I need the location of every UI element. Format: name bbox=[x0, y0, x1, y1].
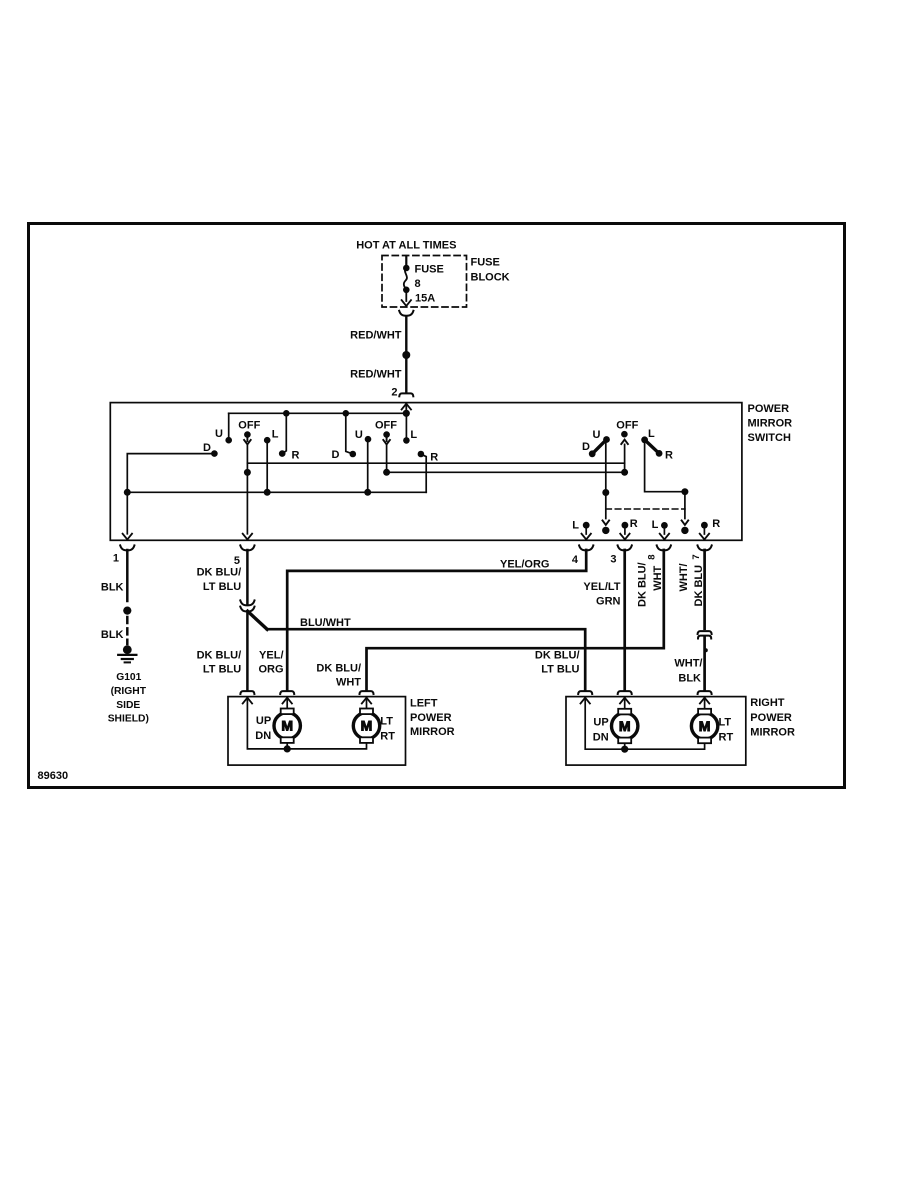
connector below fuse block bbox=[399, 311, 413, 316]
svg-text:LT BLU: LT BLU bbox=[541, 664, 579, 676]
svg-text:POWER: POWER bbox=[410, 712, 452, 724]
junction on bus for sw1 R bbox=[283, 410, 290, 417]
svg-text:LT: LT bbox=[380, 716, 393, 728]
svg-text:RIGHT: RIGHT bbox=[750, 697, 785, 709]
mechanical link dashed bbox=[606, 508, 685, 510]
svg-text:DK BLU/: DK BLU/ bbox=[637, 562, 649, 607]
svg-text:U: U bbox=[215, 428, 223, 440]
left power mirror box bbox=[228, 697, 406, 766]
wire BLU/WHT splice run to right mirror bbox=[248, 611, 268, 629]
pin 7 connector bbox=[698, 545, 712, 550]
wire DK BLU/LT BLU from pin 5 bbox=[246, 550, 249, 604]
svg-text:POWER: POWER bbox=[748, 403, 790, 415]
switch 1 OFF contact and wiper bbox=[244, 431, 251, 438]
pin 3 connector bbox=[618, 545, 632, 550]
svg-text:UP: UP bbox=[593, 717, 608, 729]
wire DK BLU/WHT pin 8 to left mirror bbox=[367, 550, 664, 690]
fuse output arrow bbox=[405, 290, 407, 301]
contact R pin 7 bbox=[701, 522, 708, 529]
svg-text:15A: 15A bbox=[415, 293, 435, 305]
wire sw2 wiper to sw3 bbox=[387, 471, 625, 473]
svg-text:WHT/: WHT/ bbox=[678, 563, 690, 591]
svg-text:WHT: WHT bbox=[336, 677, 361, 689]
svg-text:DN: DN bbox=[593, 732, 609, 744]
splice S201 bbox=[402, 351, 410, 359]
contact R pin 3 bbox=[622, 522, 629, 529]
left mirror common wire bbox=[247, 698, 366, 749]
border frame bbox=[29, 224, 845, 788]
wire BLK dashed to ground bbox=[126, 617, 129, 644]
svg-text:89630: 89630 bbox=[38, 770, 69, 782]
svg-text:SHIELD): SHIELD) bbox=[108, 714, 149, 725]
svg-text:POWER: POWER bbox=[750, 712, 792, 724]
right left/right motor M bbox=[704, 698, 706, 709]
inline connector on pin 7 wire bbox=[698, 631, 712, 634]
switch 1 L contact bbox=[264, 437, 271, 444]
svg-text:(RIGHT: (RIGHT bbox=[111, 686, 147, 697]
splice bump on pin 7 wire bbox=[704, 648, 708, 652]
contact L pin 8 bbox=[661, 522, 668, 529]
svg-text:WHT/: WHT/ bbox=[674, 657, 702, 669]
wire feed into fuse bbox=[405, 256, 407, 268]
svg-text:LT: LT bbox=[719, 717, 732, 729]
pin 2 entry arrow bbox=[402, 404, 411, 410]
svg-text:R: R bbox=[430, 451, 438, 463]
pin 4 connector bbox=[579, 545, 593, 550]
left up/down motor M bbox=[286, 698, 288, 709]
switch 2 D contact bbox=[346, 413, 353, 454]
svg-text:U: U bbox=[593, 429, 601, 441]
switch 1 D contact bbox=[211, 450, 218, 457]
svg-text:LT BLU: LT BLU bbox=[203, 664, 241, 676]
svg-text:L: L bbox=[652, 519, 659, 531]
svg-text:MIRROR: MIRROR bbox=[750, 727, 795, 739]
switch 3 selector U/D blade bbox=[589, 450, 596, 457]
switch 1 R contact bbox=[283, 413, 287, 453]
svg-text:YEL/: YEL/ bbox=[259, 649, 283, 661]
svg-text:L: L bbox=[648, 428, 655, 440]
common wire lower bbox=[127, 491, 426, 493]
svg-text:R: R bbox=[712, 518, 720, 530]
svg-text:RED/WHT: RED/WHT bbox=[350, 369, 402, 381]
wire BLK from pin 1 bbox=[126, 550, 129, 601]
wire RED/WHT upper bbox=[405, 317, 407, 352]
svg-text:SWITCH: SWITCH bbox=[748, 432, 791, 444]
svg-text:RT: RT bbox=[380, 731, 395, 743]
svg-text:L: L bbox=[572, 520, 579, 532]
svg-text:L: L bbox=[410, 429, 417, 441]
svg-text:DK BLU/: DK BLU/ bbox=[316, 662, 361, 674]
svg-text:OFF: OFF bbox=[616, 420, 638, 432]
svg-text:DN: DN bbox=[255, 730, 271, 742]
svg-text:8: 8 bbox=[415, 278, 421, 290]
wire DK BLU/LT BLU to left mirror bbox=[246, 611, 249, 690]
svg-text:D: D bbox=[582, 441, 590, 453]
pin 2 connector bbox=[399, 393, 413, 396]
pin 5 connector bbox=[240, 545, 254, 550]
svg-text:FUSE: FUSE bbox=[415, 264, 444, 276]
switch 2 OFF contact and wiper bbox=[383, 431, 390, 438]
switch 2 L contact bbox=[403, 437, 410, 444]
svg-text:SIDE: SIDE bbox=[116, 700, 140, 711]
pin 1 connector bbox=[120, 545, 134, 550]
wire WHT/BLK to right mirror bbox=[703, 637, 706, 690]
svg-text:1: 1 bbox=[113, 552, 119, 564]
wire sw1 wiper to sw3 bbox=[247, 462, 624, 464]
bus wire from pin 2 bbox=[229, 412, 407, 414]
svg-text:BLK: BLK bbox=[101, 629, 124, 641]
svg-text:YEL/LT: YEL/LT bbox=[583, 581, 620, 593]
svg-text:FUSE: FUSE bbox=[471, 257, 500, 269]
svg-text:BLOCK: BLOCK bbox=[471, 272, 510, 284]
right power mirror box bbox=[566, 697, 746, 766]
pin 8 connector bbox=[657, 545, 671, 550]
svg-text:BLK: BLK bbox=[101, 581, 124, 593]
svg-text:3: 3 bbox=[610, 553, 616, 565]
junction on bus at feed bbox=[403, 410, 410, 417]
power mirror switch box bbox=[110, 403, 742, 541]
wire WHT/DK BLU pin 7 bbox=[703, 550, 706, 629]
svg-text:DK BLU: DK BLU bbox=[693, 565, 705, 607]
svg-text:4: 4 bbox=[572, 554, 579, 566]
svg-text:ORG: ORG bbox=[258, 664, 283, 676]
fuse block dashed box bbox=[382, 256, 467, 308]
svg-text:DK BLU/: DK BLU/ bbox=[197, 566, 242, 578]
svg-text:OFF: OFF bbox=[375, 420, 397, 432]
svg-text:MIRROR: MIRROR bbox=[748, 418, 793, 430]
svg-text:BLK: BLK bbox=[678, 673, 701, 685]
svg-text:HOT AT ALL TIMES: HOT AT ALL TIMES bbox=[356, 240, 456, 252]
wire RED/WHT lower bbox=[405, 355, 407, 392]
svg-text:R: R bbox=[292, 449, 300, 461]
svg-text:8: 8 bbox=[647, 555, 658, 560]
svg-text:GRN: GRN bbox=[596, 595, 621, 607]
svg-text:RED/WHT: RED/WHT bbox=[350, 330, 402, 342]
svg-text:LEFT: LEFT bbox=[410, 698, 438, 710]
switch 3 OFF contact and wiper bbox=[621, 431, 628, 438]
switch 3 U wire down to wiper bbox=[605, 440, 607, 519]
svg-text:L: L bbox=[272, 428, 279, 440]
switch 1 U contact bbox=[228, 413, 230, 440]
svg-text:LT BLU: LT BLU bbox=[203, 581, 241, 593]
wire D to pin 1 bbox=[127, 454, 214, 534]
fuse F8 15A bbox=[403, 265, 410, 272]
left left/right motor M bbox=[366, 698, 368, 709]
svg-text:DK BLU/: DK BLU/ bbox=[197, 649, 242, 661]
inline connector C240 bbox=[240, 600, 254, 605]
svg-text:7: 7 bbox=[691, 554, 702, 559]
left mirror pin arrows bbox=[243, 698, 252, 704]
svg-text:DK BLU/: DK BLU/ bbox=[535, 649, 580, 661]
junction sw1 wiper bbox=[244, 469, 251, 476]
svg-text:WHT: WHT bbox=[652, 565, 664, 590]
right up/down motor M bbox=[624, 698, 626, 709]
svg-text:R: R bbox=[630, 518, 638, 530]
svg-text:D: D bbox=[203, 442, 211, 454]
switch 2 U contact bbox=[365, 436, 372, 443]
svg-text:D: D bbox=[332, 449, 340, 461]
svg-text:G101: G101 bbox=[116, 672, 141, 683]
svg-text:MIRROR: MIRROR bbox=[410, 726, 455, 738]
svg-text:UP: UP bbox=[256, 715, 271, 727]
wire YEL/ORG pin 4 to left mirror bbox=[287, 550, 586, 690]
wire YEL/LT GRN pin 3 to right mirror bbox=[623, 550, 626, 690]
switch 1 wiper wire to pin 5 bbox=[246, 444, 248, 534]
svg-text:RT: RT bbox=[719, 732, 734, 744]
junction on bus for sw2 D bbox=[343, 410, 350, 417]
svg-text:2: 2 bbox=[391, 387, 397, 399]
svg-text:5: 5 bbox=[234, 555, 240, 567]
switch 1 L wire down bbox=[266, 440, 268, 492]
switch 2 R contact bbox=[418, 451, 425, 458]
switch 3 L/R blade bbox=[641, 436, 648, 443]
svg-text:OFF: OFF bbox=[238, 420, 260, 432]
svg-text:U: U bbox=[355, 429, 363, 441]
right mirror pin arrows bbox=[581, 698, 590, 704]
contact L pin 4 bbox=[583, 522, 590, 529]
splice on BLK bbox=[123, 607, 131, 615]
svg-text:R: R bbox=[665, 449, 673, 461]
svg-text:YEL/ORG: YEL/ORG bbox=[500, 559, 550, 571]
svg-text:BLU/WHT: BLU/WHT bbox=[300, 617, 351, 629]
right mirror common wire bbox=[585, 698, 704, 749]
ground G101 bbox=[123, 645, 132, 654]
switch 3 L wire to right wiper bbox=[645, 440, 685, 492]
